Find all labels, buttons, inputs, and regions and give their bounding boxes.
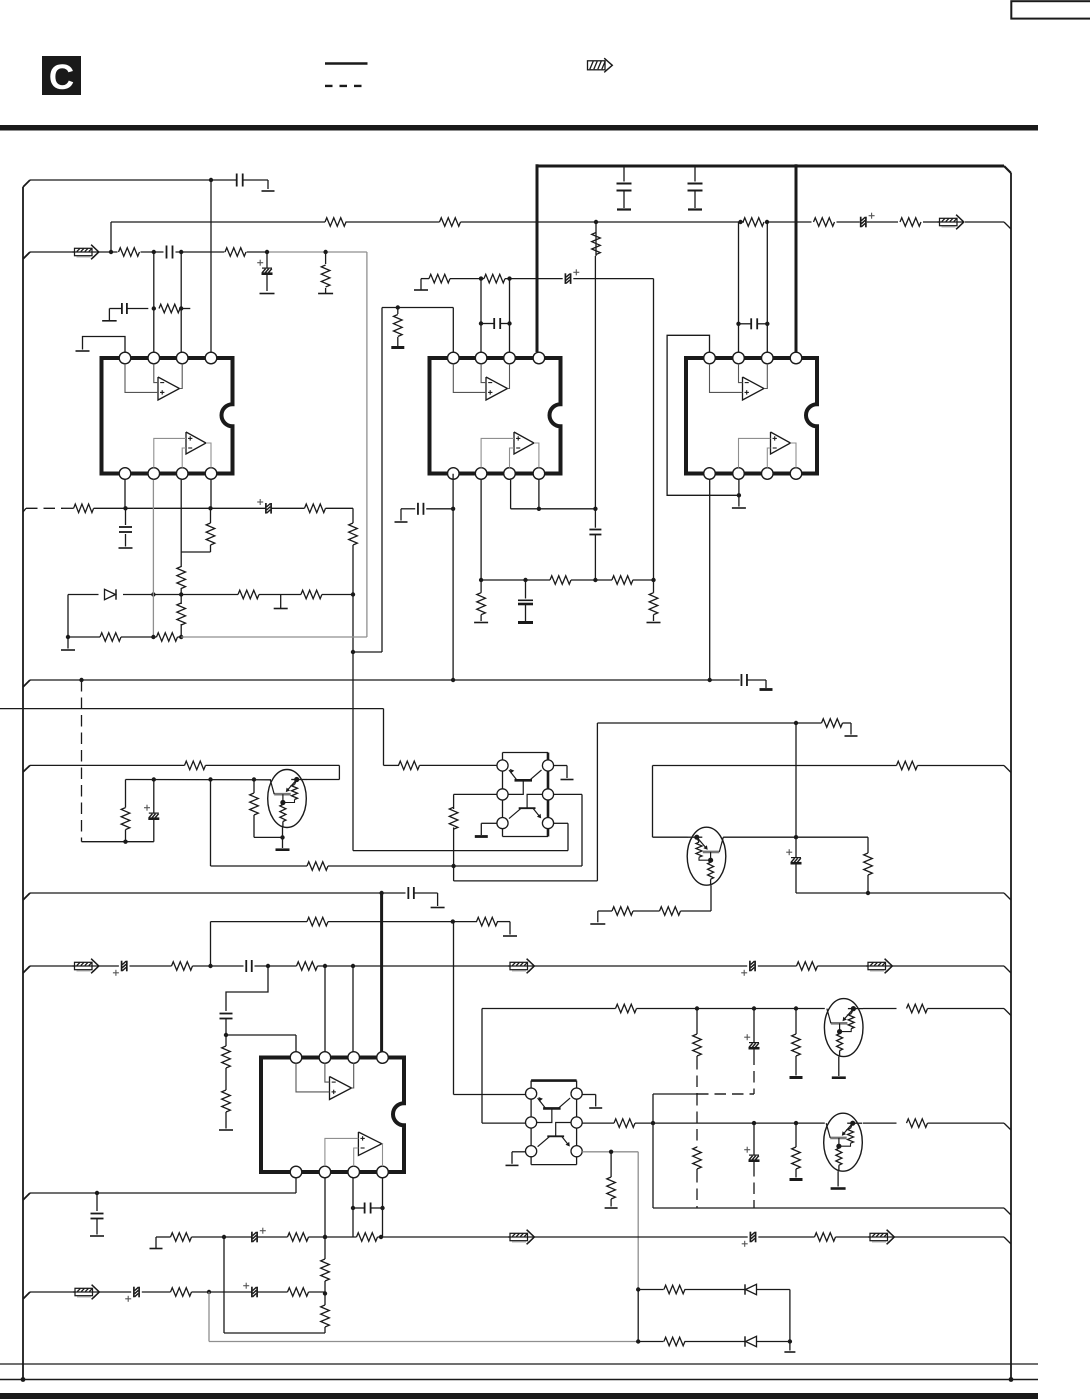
junction <box>794 1121 798 1125</box>
wire pin4 drop <box>210 180 212 352</box>
electrolytic capacitor C19 <box>113 961 127 976</box>
wire pin5 drop <box>123 479 127 510</box>
junction <box>593 507 597 511</box>
wire <box>61 595 75 651</box>
capacitor C15 <box>741 674 766 688</box>
net y765 right <box>653 766 1012 773</box>
wire IC2 pin1 net <box>351 305 454 654</box>
junction <box>752 1006 756 1010</box>
resistor R60 <box>171 1288 192 1297</box>
digital transistor Q4 <box>824 1113 863 1171</box>
resistor R44 <box>219 1090 233 1130</box>
junction <box>451 864 455 868</box>
resistor R28 <box>449 807 458 881</box>
op-amp IC3 <box>686 352 817 479</box>
resistor R43 <box>222 1035 231 1090</box>
resistor R35 <box>660 907 681 916</box>
electrolytic capacitor C16 <box>144 780 159 842</box>
junction <box>379 891 383 895</box>
net y893 left <box>23 893 406 900</box>
wire pin2 ground <box>554 766 574 780</box>
electrolytic capacitor C24 <box>744 1123 759 1165</box>
resistor R47 <box>790 1009 803 1078</box>
net y880 jog <box>454 723 598 881</box>
digital transistor Q3 <box>824 999 863 1057</box>
capacitor C11 bridge <box>479 279 512 352</box>
legend signal arrow <box>588 58 613 72</box>
frame bottom line <box>0 1363 1038 1365</box>
junction <box>266 964 270 968</box>
junction <box>695 1006 699 1010</box>
wire emitter <box>832 1057 846 1078</box>
wire pin3 drop <box>180 252 182 352</box>
frame top-left segment <box>30 179 237 181</box>
resistor R46 <box>693 1009 702 1059</box>
wire block left edge <box>652 1094 654 1208</box>
junction <box>479 276 483 280</box>
section label C <box>42 56 81 97</box>
resistor R6 <box>109 248 140 257</box>
resistor R12 <box>305 504 354 513</box>
resistor R9 <box>159 304 180 313</box>
wire pin3 net <box>454 794 497 809</box>
resistor R25 <box>474 580 488 623</box>
resistor R3 <box>738 218 769 227</box>
capacitor C28 <box>353 1203 383 1214</box>
resistor R27 <box>399 761 420 770</box>
wire pin6 drop <box>732 480 746 508</box>
junction <box>752 1121 756 1125</box>
wire pin4 resistor <box>582 1122 653 1124</box>
page bottom rule <box>0 1377 1038 1382</box>
diode D3 <box>745 1336 757 1346</box>
junction <box>507 276 511 280</box>
wire pin4 net <box>454 794 582 866</box>
net diode lower <box>638 1339 795 1352</box>
resistor R31 <box>250 780 283 838</box>
op-amp IC2 <box>430 352 561 479</box>
wire pin3 drop <box>352 966 354 1052</box>
resistor R40 <box>172 962 193 971</box>
net y1008 <box>482 1009 1011 1124</box>
resistor chain R58 <box>321 1178 330 1305</box>
capacitor C13 <box>518 580 533 623</box>
signal arrow out <box>938 215 964 230</box>
wire pin6 gray <box>582 1150 638 1154</box>
frame right <box>1010 173 1012 1380</box>
wire emitter chain <box>590 885 711 924</box>
capacitor C14 <box>739 318 768 329</box>
resistor R14 <box>238 590 259 599</box>
signal arrow in <box>73 245 99 260</box>
wire pin8 drop <box>210 480 212 509</box>
diode D1 <box>105 589 117 599</box>
signal arrow <box>73 1285 99 1300</box>
electrolytic capacitor C29 <box>125 1287 139 1302</box>
resistor R57 <box>815 1233 836 1242</box>
power bus to IC2 pin4 <box>536 164 539 352</box>
power bus top <box>537 166 1011 173</box>
net y580 <box>479 480 656 582</box>
wire pin7 drop <box>180 480 182 552</box>
wire <box>247 251 267 253</box>
wire to pack2 pin1 <box>454 922 527 1095</box>
electrolytic capacitor C17 <box>786 837 801 893</box>
resistor R56 <box>357 1233 378 1242</box>
wire pin8 drop <box>380 1178 384 1237</box>
capacitor C22 chain <box>220 966 297 1052</box>
net y779 <box>126 777 340 781</box>
resistor R36 <box>612 907 633 916</box>
wire pin5 ground <box>475 823 497 836</box>
electrolytic capacitor C9 <box>211 499 305 514</box>
net y1237 <box>150 1237 1012 1249</box>
wire dashed <box>696 1171 698 1208</box>
junction <box>636 1339 640 1343</box>
wire pin5 ground <box>506 1152 527 1166</box>
resistor R22 <box>592 233 601 255</box>
electrolytic capacitor C26 <box>252 1228 266 1243</box>
resistor R54 <box>171 1233 192 1242</box>
capacitor C31 <box>395 503 454 522</box>
resistor R52 <box>790 1123 803 1179</box>
wire x596 <box>594 222 597 528</box>
resistor R38 <box>307 917 328 926</box>
resistor R10 <box>63 504 126 513</box>
frame left <box>23 180 30 1380</box>
wire gray y637 <box>181 636 367 638</box>
net y893 right <box>796 893 1011 900</box>
signal arrow <box>73 959 99 974</box>
wire dashed <box>697 1093 754 1095</box>
net y637 <box>68 636 181 638</box>
wire pin7 drop <box>351 1178 355 1237</box>
net y278 <box>414 279 654 580</box>
junction <box>323 964 355 968</box>
net y708 offpage <box>0 709 384 766</box>
resistor R7 <box>225 248 246 257</box>
resistor R63 <box>664 1337 685 1346</box>
junction <box>179 592 183 596</box>
wire pin5 drop <box>452 474 454 680</box>
ground <box>262 190 275 192</box>
junction <box>323 250 327 254</box>
resistor R18 <box>157 633 178 642</box>
wire block top dashed <box>653 1093 754 1095</box>
junction <box>379 1235 383 1239</box>
resistor R59 <box>321 1305 330 1333</box>
wire net y222 <box>111 222 1011 252</box>
junction <box>209 178 213 182</box>
net y966 <box>23 966 1011 973</box>
wire pin3 drop <box>765 222 769 352</box>
net y866 <box>211 865 454 867</box>
wire pin2 drop <box>736 222 740 352</box>
ground <box>617 208 631 210</box>
svg-text:C: C <box>49 58 74 97</box>
wire pin1 ground loop <box>76 337 126 353</box>
electrolytic capacitor C4 <box>861 213 875 228</box>
junction <box>207 1290 211 1294</box>
wire x210 <box>210 780 212 867</box>
junction <box>636 1287 640 1291</box>
capacitor C12 <box>589 530 601 581</box>
legend dashed line <box>325 85 364 87</box>
wire emitter <box>831 1171 846 1188</box>
digital transistor Q1 <box>268 770 307 828</box>
wire bottom <box>82 840 154 844</box>
resistor R50 <box>605 1152 618 1208</box>
top divider bar <box>0 125 1038 131</box>
net y1208 <box>653 1208 1011 1215</box>
ground <box>274 595 288 609</box>
wire dashed gnd <box>81 680 83 842</box>
resistor R49 <box>614 1119 635 1128</box>
resistor R11 <box>181 508 215 552</box>
wire pin5 drop <box>708 480 712 682</box>
wire collector out <box>723 835 868 839</box>
junction <box>179 306 183 310</box>
electrolytic capacitor C6 <box>257 252 274 294</box>
resistor R41 <box>297 962 318 971</box>
resistor R4 <box>814 218 835 227</box>
wire x353 <box>352 652 354 851</box>
resistor R61 <box>288 1288 309 1297</box>
junction <box>151 592 155 596</box>
op-amp IC4 <box>261 1052 404 1178</box>
electrolytic capacitor C30 <box>243 1283 257 1298</box>
legend solid line <box>325 62 368 64</box>
resistor R39 <box>477 917 498 926</box>
wire x652 <box>653 766 688 838</box>
net y1292 <box>23 1292 325 1299</box>
resistor R37 <box>864 837 873 895</box>
wire dashed <box>696 1094 698 1147</box>
junction <box>794 1006 798 1010</box>
page number box <box>1011 1 1090 18</box>
junction <box>265 250 269 254</box>
resistor R17 <box>100 633 121 642</box>
wire gray pin6 <box>151 480 155 639</box>
resistor R30 <box>185 761 206 770</box>
electrolytic capacitor C23 <box>744 1009 759 1054</box>
resistor R32 <box>121 780 130 842</box>
junction <box>152 306 156 310</box>
electrolytic capacitor C21 <box>741 961 755 976</box>
resistor R1 <box>325 218 346 227</box>
net diode upper <box>638 1290 790 1342</box>
net y594 <box>68 594 353 596</box>
transistor pack Q5 <box>497 753 554 837</box>
wire pin2 drop <box>324 966 326 1052</box>
net y680 <box>23 678 740 687</box>
capacitor C2 (bus bypass) <box>617 166 632 208</box>
resistor R29 <box>307 862 328 871</box>
signal arrow <box>508 959 534 974</box>
wire dashed <box>696 1058 698 1094</box>
wire <box>243 180 268 189</box>
signal arrow <box>866 959 892 974</box>
net y765 left <box>23 765 339 779</box>
resistor R5 <box>900 218 921 227</box>
digital transistor Q2 <box>687 827 726 885</box>
ground <box>760 688 773 691</box>
resistor R16 chain pin7 <box>177 552 186 639</box>
resistor R42 <box>797 962 818 971</box>
wire <box>141 250 164 254</box>
junction <box>451 507 455 511</box>
resistor R20 <box>429 274 450 283</box>
wire pin2 drop <box>153 252 155 352</box>
wire pin1 feed <box>384 764 498 766</box>
resistor R2 <box>440 218 461 227</box>
electrolytic capacitor C27 <box>742 1232 756 1247</box>
resistor R34 <box>897 761 918 770</box>
wire dashed <box>753 1165 755 1208</box>
diode D2 <box>745 1284 757 1294</box>
wire <box>126 506 213 510</box>
junction <box>451 919 455 923</box>
resistor R13 <box>349 508 358 652</box>
resistor R48 <box>907 1004 928 1013</box>
resistor R19 <box>391 308 404 348</box>
net y723 <box>597 721 798 837</box>
capacitor C25 <box>90 1193 104 1236</box>
wire <box>176 250 225 254</box>
net y1123 <box>651 1121 1011 1130</box>
resistor R62 <box>664 1285 685 1294</box>
resistor R51 <box>693 1147 702 1171</box>
resistor R15 <box>301 590 322 599</box>
wire emitter <box>276 828 290 850</box>
transistor pack Q6 <box>526 1081 583 1165</box>
wire pin2 ground <box>582 1095 602 1109</box>
net feedback y308 <box>102 309 190 321</box>
junction <box>351 592 355 596</box>
wire dashed <box>753 1054 755 1095</box>
capacitor C8 <box>119 508 133 548</box>
capacitor C20 <box>246 960 252 972</box>
capacitor C18 <box>408 887 444 908</box>
wire main input <box>23 252 118 259</box>
resistor R24 <box>612 576 633 585</box>
power bus to IC3 pin4 <box>795 164 798 352</box>
resistor R45 <box>616 1004 637 1013</box>
junction <box>594 220 598 224</box>
capacitor C7 <box>122 303 127 314</box>
wire signal gray <box>267 252 367 637</box>
bottom divider bar <box>0 1393 1038 1399</box>
power wire to IC4 pin4 <box>380 893 383 1052</box>
resistor R33 <box>796 719 858 736</box>
wire gray out <box>209 1292 638 1342</box>
net y1193 <box>23 1179 296 1201</box>
resistor R21 <box>484 274 505 283</box>
wire x224 <box>224 1237 325 1333</box>
capacitor C3 (bus bypass) <box>688 166 703 208</box>
resistor R53 <box>907 1119 928 1128</box>
junction <box>451 678 455 682</box>
wire gray x638 <box>637 1152 639 1342</box>
ground <box>688 208 702 210</box>
resistor R26 <box>647 580 661 623</box>
junction <box>222 1235 226 1239</box>
wire pin7-pin8 link <box>511 480 596 511</box>
signal arrow <box>508 1230 534 1245</box>
net y921 <box>211 922 511 966</box>
wire dashed from frame <box>23 508 63 512</box>
op-amp IC1 <box>102 352 233 479</box>
wire IC3 pin1 loop <box>667 335 741 497</box>
capacitor C1 (top frame) <box>237 174 243 187</box>
junction <box>323 1235 327 1239</box>
resistor R8 <box>318 252 333 294</box>
signal arrow <box>868 1230 894 1245</box>
junction <box>208 964 212 968</box>
wire pin6 net <box>353 823 568 850</box>
ground <box>503 935 517 937</box>
resistor R23 <box>550 576 571 585</box>
capacitor C5 <box>167 246 173 259</box>
resistor R55 <box>288 1233 309 1242</box>
electrolytic capacitor C10 <box>565 269 579 284</box>
